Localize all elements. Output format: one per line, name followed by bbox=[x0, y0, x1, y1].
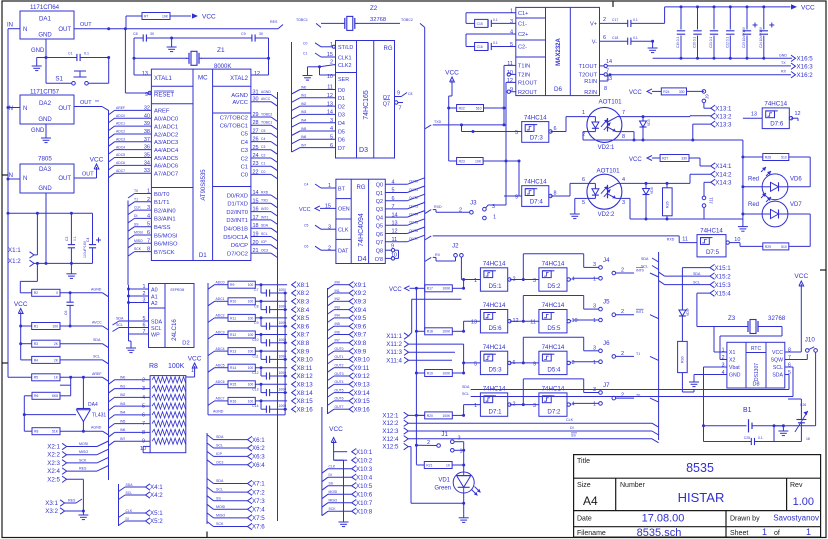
svg-text:AOT101: AOT101 bbox=[596, 168, 620, 175]
svg-text:AREF: AREF bbox=[154, 109, 170, 115]
wire RX line bbox=[610, 74, 791, 76]
wire TL431 ref bbox=[24, 414, 76, 416]
svg-text:OUT3: OUT3 bbox=[409, 204, 418, 208]
wire VCC to R22 bbox=[451, 86, 453, 96]
svg-text:0.1: 0.1 bbox=[633, 18, 638, 22]
zener VD5 bbox=[681, 268, 683, 310]
svg-text:X10:4: X10:4 bbox=[356, 474, 373, 481]
svg-text:74HC14: 74HC14 bbox=[483, 302, 506, 309]
svg-text:ADC2: ADC2 bbox=[116, 130, 125, 134]
wire xtal left vertical bbox=[133, 38, 135, 75]
wire J10 shunt mark bbox=[809, 347, 814, 350]
svg-text:CLK: CLK bbox=[134, 206, 141, 210]
svg-text:R5: R5 bbox=[34, 376, 38, 380]
svg-text:IN: IN bbox=[7, 173, 13, 179]
svg-text:5: 5 bbox=[474, 361, 477, 367]
svg-text:Size: Size bbox=[577, 482, 591, 489]
svg-text:X10:2: X10:2 bbox=[356, 457, 373, 464]
svg-text:X11:4: X11:4 bbox=[386, 357, 402, 364]
wire X11:4 stub bbox=[409, 359, 453, 361]
svg-text:C8: C8 bbox=[254, 305, 258, 309]
svg-text:X10:6: X10:6 bbox=[356, 491, 373, 498]
svg-text:X5:1: X5:1 bbox=[150, 510, 163, 517]
diode VD3 clamp bbox=[642, 117, 644, 121]
svg-text:5: 5 bbox=[142, 404, 145, 410]
svg-text:X6:4: X6:4 bbox=[252, 462, 265, 469]
nc bubble T2OUT bbox=[600, 73, 605, 75]
wire RX net to J2 bbox=[425, 257, 432, 261]
wire X15:3 to bus bbox=[665, 284, 711, 286]
border zone tick bottom bbox=[206, 532, 208, 538]
svg-text:9: 9 bbox=[533, 361, 536, 367]
svg-text:VD5: VD5 bbox=[686, 309, 690, 316]
svg-text:Savostyanov: Savostyanov bbox=[773, 514, 819, 523]
svg-text:C12: C12 bbox=[252, 371, 258, 375]
svg-text:ADC4: ADC4 bbox=[116, 145, 125, 149]
bus X4 X5 nets bbox=[118, 484, 120, 526]
svg-text:IN0: IN0 bbox=[120, 376, 125, 380]
svg-text:74HC14: 74HC14 bbox=[542, 302, 565, 309]
wire battery to ground bbox=[774, 425, 783, 427]
capacitor C21 decoupling bbox=[713, 5, 716, 8]
svg-text:6K8: 6K8 bbox=[52, 394, 58, 398]
svg-text:OUT7: OUT7 bbox=[335, 405, 344, 409]
svg-text:X11:2: X11:2 bbox=[386, 341, 402, 348]
svg-text:J1: J1 bbox=[441, 431, 448, 438]
svg-text:AREF: AREF bbox=[116, 106, 125, 110]
svg-text:B0/T0: B0/T0 bbox=[154, 192, 169, 198]
capacitor C1 0.1 reset bbox=[46, 57, 77, 59]
svg-text:VD4: VD4 bbox=[650, 187, 654, 194]
svg-text:R1OUT: R1OUT bbox=[518, 81, 538, 87]
svg-text:X8:12: X8:12 bbox=[297, 373, 314, 380]
svg-text:RX: RX bbox=[781, 70, 787, 74]
svg-text:X4:2: X4:2 bbox=[150, 492, 163, 499]
svg-text:RXD: RXD bbox=[667, 238, 675, 242]
svg-text:3: 3 bbox=[533, 278, 536, 284]
svg-text:A1/ADC1: A1/ADC1 bbox=[154, 124, 178, 130]
wire AGND tie to GND bbox=[36, 263, 38, 281]
svg-text:IN5: IN5 bbox=[120, 419, 125, 423]
svg-text:7: 7 bbox=[142, 421, 145, 427]
svg-text:ADC3: ADC3 bbox=[216, 330, 225, 334]
ground at D3 CLK2 bbox=[307, 73, 309, 76]
svg-text:X14:3: X14:3 bbox=[715, 180, 732, 187]
svg-text:1K: 1K bbox=[446, 463, 451, 467]
svg-text:ADC7: ADC7 bbox=[116, 169, 125, 173]
svg-text:C1: C1 bbox=[68, 52, 73, 56]
wire V+ to VCC rail bbox=[664, 7, 666, 24]
svg-text:30: 30 bbox=[150, 32, 154, 36]
svg-text:1000: 1000 bbox=[279, 288, 287, 292]
resistor R30 vertical bbox=[678, 341, 688, 372]
svg-text:51K: 51K bbox=[52, 430, 59, 434]
bus VCC pull-up vertical bbox=[415, 288, 417, 464]
svg-text:510: 510 bbox=[781, 245, 787, 249]
svg-text:1: 1 bbox=[474, 403, 477, 409]
svg-text:7: 7 bbox=[622, 110, 625, 116]
bus left analog nets bbox=[108, 110, 110, 480]
nc bubble T2IN bbox=[511, 73, 516, 75]
svg-text:D1: D1 bbox=[338, 96, 345, 102]
svg-text:C15: C15 bbox=[477, 22, 483, 26]
svg-text:R11: R11 bbox=[230, 316, 236, 320]
svg-text:J7: J7 bbox=[603, 382, 610, 389]
svg-text:1: 1 bbox=[474, 278, 477, 284]
wire X12:4 SS line bbox=[408, 438, 652, 440]
svg-text:X9:2: X9:2 bbox=[354, 290, 367, 297]
wire emitter rail to ground bbox=[704, 218, 743, 220]
svg-text:D0/RXD: D0/RXD bbox=[227, 193, 248, 199]
svg-text:1171СП64: 1171СП64 bbox=[30, 4, 60, 11]
svg-text:J2: J2 bbox=[452, 243, 459, 250]
svg-text:C24 10uF*16V: C24 10uF*16V bbox=[759, 26, 763, 48]
svg-text:ADC2: ADC2 bbox=[216, 314, 225, 318]
svg-text:D2/INT0: D2/INT0 bbox=[226, 210, 248, 216]
wire D5:1 to D5:2 bbox=[510, 279, 539, 281]
mcu XTAL1 section bbox=[151, 85, 193, 87]
svg-text:X2:1: X2:1 bbox=[47, 444, 60, 451]
svg-text:AREF: AREF bbox=[92, 372, 102, 376]
svg-text:C10: C10 bbox=[252, 338, 258, 342]
svg-text:7805: 7805 bbox=[38, 156, 52, 163]
svg-text:R29: R29 bbox=[765, 245, 771, 249]
shift register D3 74HC165 bbox=[336, 41, 395, 159]
svg-text:C4: C4 bbox=[261, 137, 265, 141]
svg-text:Red: Red bbox=[748, 177, 759, 183]
capacitor C23 decoupling bbox=[746, 5, 749, 8]
svg-text:VCC: VCC bbox=[389, 287, 402, 293]
wire X12:1 to R20 bbox=[408, 414, 425, 416]
bus X6 X7 nets bbox=[206, 433, 208, 524]
svg-text:OUT: OUT bbox=[58, 176, 71, 182]
svg-text:IN6: IN6 bbox=[120, 428, 125, 432]
svg-text:C0: C0 bbox=[241, 173, 248, 179]
svg-text:C3: C3 bbox=[261, 145, 265, 149]
nc bubble R2OUT bbox=[511, 91, 516, 93]
resistor R14 100 input bbox=[208, 368, 215, 373]
svg-text:MISO: MISO bbox=[79, 450, 88, 454]
svg-text:2: 2 bbox=[582, 132, 585, 138]
capacitor C11 1000 input bbox=[260, 351, 262, 359]
svg-text:SDA: SDA bbox=[116, 317, 124, 321]
svg-text:T1: T1 bbox=[636, 352, 640, 356]
svg-text:32768: 32768 bbox=[768, 315, 786, 322]
svg-text:AGND: AGND bbox=[261, 90, 271, 94]
svg-text:1: 1 bbox=[582, 110, 585, 116]
capacitor C13 1000 input bbox=[260, 384, 262, 392]
svg-text:Z2: Z2 bbox=[370, 5, 378, 12]
svg-text:DAT: DAT bbox=[338, 249, 349, 255]
svg-text:1171СП57: 1171СП57 bbox=[30, 89, 60, 96]
svg-text:ADC3: ADC3 bbox=[116, 137, 125, 141]
wire feedback loop J5 bbox=[522, 296, 524, 322]
svg-text:0.1: 0.1 bbox=[633, 36, 638, 40]
svg-text:X8:2: X8:2 bbox=[297, 290, 310, 297]
svg-text:3: 3 bbox=[492, 204, 495, 210]
svg-text:C5: C5 bbox=[304, 224, 308, 228]
wire R20 to D7:1 input bbox=[463, 405, 465, 416]
svg-text:X10:3: X10:3 bbox=[356, 466, 373, 473]
svg-text:Title: Title bbox=[577, 458, 590, 465]
ground at C18 bbox=[651, 40, 654, 43]
svg-text:X1:1: X1:1 bbox=[8, 247, 21, 254]
svg-text:Q3: Q3 bbox=[376, 207, 383, 213]
svg-text:1: 1 bbox=[806, 527, 811, 537]
svg-text:R28: R28 bbox=[765, 155, 771, 159]
border zone tick top bbox=[612, 1, 614, 7]
svg-text:SCL: SCL bbox=[151, 326, 162, 332]
wire J1 pin1 stub bbox=[454, 449, 464, 451]
svg-text:CLK1: CLK1 bbox=[338, 55, 352, 61]
svg-text:X2:4: X2:4 bbox=[47, 468, 60, 475]
svg-text:X1:2: X1:2 bbox=[8, 258, 21, 265]
svg-text:A1: A1 bbox=[151, 295, 158, 301]
resistor R29 510 bbox=[763, 243, 789, 250]
wire AGND rail of input filters bbox=[208, 414, 285, 416]
svg-text:VD1: VD1 bbox=[438, 478, 450, 484]
svg-text:T2IN: T2IN bbox=[518, 73, 530, 79]
svg-text:X15:4: X15:4 bbox=[715, 290, 732, 297]
svg-text:D5: D5 bbox=[338, 129, 345, 135]
resistor R5 1K to AREF bbox=[8, 376, 32, 378]
wire VD7 to R29 bbox=[809, 214, 811, 246]
svg-text:J6: J6 bbox=[603, 340, 610, 347]
svg-text:1: 1 bbox=[593, 318, 596, 324]
power VCC arrow top right bbox=[791, 4, 797, 9]
svg-text:D5:4: D5:4 bbox=[547, 367, 561, 374]
svg-text:SCL: SCL bbox=[641, 265, 648, 269]
svg-text:ADC0: ADC0 bbox=[116, 114, 125, 118]
svg-text:X8:6: X8:6 bbox=[297, 323, 310, 330]
svg-text:8: 8 bbox=[788, 348, 791, 354]
svg-text:X9:7: X9:7 bbox=[354, 332, 367, 339]
svg-text:VD3: VD3 bbox=[647, 119, 651, 126]
svg-text:D3/INT1: D3/INT1 bbox=[226, 218, 248, 224]
svg-text:R7: R7 bbox=[144, 14, 148, 18]
capacitor C20 decoupling bbox=[696, 5, 699, 8]
svg-text:SQW: SQW bbox=[771, 358, 783, 364]
wire VCC to X10:1 bbox=[333, 447, 335, 461]
svg-text:XTAL2: XTAL2 bbox=[230, 76, 249, 82]
svg-text:D5:1: D5:1 bbox=[489, 283, 503, 290]
svg-text:R14: R14 bbox=[230, 366, 236, 370]
svg-text:1: 1 bbox=[493, 215, 496, 221]
capacitor C18 0.1 at V- bbox=[600, 40, 628, 42]
svg-text:74HC14: 74HC14 bbox=[483, 261, 506, 268]
svg-text:D6: D6 bbox=[338, 138, 345, 144]
svg-text:X8:9: X8:9 bbox=[297, 348, 310, 355]
svg-text:1: 1 bbox=[460, 449, 463, 455]
svg-text:2: 2 bbox=[603, 17, 606, 23]
svg-text:TOBC1: TOBC1 bbox=[261, 121, 272, 125]
connector X9 1-16 with nets bbox=[349, 282, 354, 288]
svg-text:1K: 1K bbox=[54, 376, 59, 380]
svg-text:ADC5: ADC5 bbox=[216, 364, 225, 368]
svg-text:D5:6: D5:6 bbox=[489, 325, 503, 332]
wire J1 pin2 bbox=[416, 444, 436, 446]
wire input to D7:3 bbox=[461, 125, 463, 132]
capacitor C4 electrolytic input filter bbox=[92, 213, 94, 244]
wire collector to X13:2 bbox=[689, 115, 691, 118]
capacitor C6 AGND-AVCC bbox=[69, 293, 71, 302]
wire raw rail to R5 bbox=[7, 213, 9, 377]
svg-text:J3: J3 bbox=[470, 200, 477, 207]
svg-text:510: 510 bbox=[781, 155, 787, 159]
svg-text:X6:3: X6:3 bbox=[252, 454, 265, 461]
resistor R20 100K bbox=[416, 414, 424, 416]
svg-text:X8:11: X8:11 bbox=[297, 365, 313, 372]
svg-text:DS1307: DS1307 bbox=[754, 363, 760, 381]
net stub SCL top of bus bbox=[652, 266, 659, 270]
wire J3 pin3 riser bbox=[505, 161, 507, 205]
svg-text:C22 0.1: C22 0.1 bbox=[725, 37, 729, 48]
svg-text:D7:5: D7:5 bbox=[706, 249, 720, 256]
svg-text:AVCC: AVCC bbox=[232, 100, 248, 106]
svg-text:B7/SCK: B7/SCK bbox=[154, 250, 175, 256]
svg-text:12: 12 bbox=[795, 111, 801, 117]
wire TX line bbox=[607, 65, 791, 67]
svg-text:Q6: Q6 bbox=[376, 232, 383, 238]
svg-text:100K: 100K bbox=[168, 363, 185, 370]
ground at D2 bbox=[130, 345, 132, 348]
wire DS1307 GND pin bbox=[694, 374, 727, 376]
wire R18 to D5:6 input bbox=[463, 321, 465, 331]
svg-text:X6:1: X6:1 bbox=[252, 437, 265, 444]
jumper J9 bbox=[702, 90, 706, 94]
svg-text:RTC: RTC bbox=[751, 346, 762, 352]
svg-text:OC3: OC3 bbox=[261, 249, 268, 253]
resistor R24 330 bbox=[661, 88, 686, 95]
svg-text:74HC4094: 74HC4094 bbox=[358, 213, 365, 247]
svg-text:100: 100 bbox=[248, 316, 254, 320]
svg-text:B3/AIN1: B3/AIN1 bbox=[154, 217, 176, 223]
svg-text:X8:7: X8:7 bbox=[297, 332, 310, 339]
svg-text:X9:6: X9:6 bbox=[354, 323, 367, 330]
rtc D8 DS1307 bbox=[727, 342, 785, 388]
svg-text:RG: RG bbox=[357, 185, 366, 191]
capacitor C9 1000 input bbox=[260, 318, 262, 326]
svg-text:X9:11: X9:11 bbox=[354, 365, 370, 372]
svg-text:R18: R18 bbox=[427, 330, 433, 334]
title block frame bbox=[574, 455, 821, 537]
svg-text:A2: A2 bbox=[151, 301, 158, 307]
svg-text:VCC: VCC bbox=[772, 350, 783, 356]
svg-text:9: 9 bbox=[397, 91, 400, 97]
wire raw input rail vertical bbox=[7, 29, 9, 214]
svg-text:X12:2: X12:2 bbox=[382, 420, 399, 427]
ground at X3 bbox=[82, 510, 85, 513]
svg-text:VCC: VCC bbox=[299, 207, 311, 213]
svg-text:V-: V- bbox=[592, 39, 597, 45]
svg-text:TOBC2: TOBC2 bbox=[261, 112, 272, 116]
wire J11 to emitter rail bbox=[703, 207, 705, 219]
svg-text:DA4: DA4 bbox=[88, 402, 98, 408]
svg-text:GND: GND bbox=[779, 54, 787, 58]
svg-text:D4/OB1B: D4/OB1B bbox=[224, 227, 249, 233]
shift register D4 74HC4094 bbox=[336, 179, 385, 263]
svg-text:D5/OC1A: D5/OC1A bbox=[223, 235, 248, 241]
regulator DA2 1171SP57 bbox=[20, 95, 74, 124]
svg-text:Q5: Q5 bbox=[376, 224, 383, 230]
svg-text:SCL: SCL bbox=[93, 354, 100, 358]
svg-text:D6: D6 bbox=[554, 86, 562, 93]
svg-text:2: 2 bbox=[142, 377, 145, 383]
wire feedback loop J7 bbox=[522, 379, 524, 405]
svg-text:VCC: VCC bbox=[445, 70, 459, 77]
wire Z3 to X2 bbox=[760, 326, 782, 328]
svg-text:GND: GND bbox=[729, 373, 741, 379]
svg-text:V+: V+ bbox=[590, 22, 597, 28]
svg-text:SDA: SDA bbox=[693, 272, 701, 276]
wire DA1 OUT reset rail bbox=[74, 28, 278, 30]
svg-text:SCL: SCL bbox=[773, 365, 783, 371]
bus mcu right vertical bbox=[277, 92, 279, 521]
resistor R12 100 input bbox=[208, 335, 215, 340]
svg-text:B6/MISO: B6/MISO bbox=[154, 242, 178, 248]
svg-text:R9: R9 bbox=[230, 283, 234, 287]
svg-text:SS: SS bbox=[134, 222, 139, 226]
resistor R10 100 input bbox=[208, 301, 215, 306]
svg-text:AVCC: AVCC bbox=[261, 97, 271, 101]
border zone tick left upper bbox=[2, 174, 8, 176]
connector X15 bbox=[710, 264, 715, 270]
svg-text:SER: SER bbox=[338, 77, 349, 83]
svg-text:Date: Date bbox=[577, 516, 592, 523]
svg-text:X14:1: X14:1 bbox=[715, 163, 732, 170]
svg-text:RG: RG bbox=[384, 46, 393, 52]
svg-text:Rev: Rev bbox=[790, 482, 803, 489]
capacitor C15 0.1 charge pump bbox=[466, 12, 516, 14]
svg-text:TOBC1: TOBC1 bbox=[296, 18, 308, 22]
svg-text:X9:4: X9:4 bbox=[354, 307, 367, 314]
svg-text:R12: R12 bbox=[230, 333, 236, 337]
svg-text:R2IN: R2IN bbox=[584, 90, 597, 96]
wire input to D7:4 bbox=[504, 195, 522, 197]
svg-text:RX: RX bbox=[435, 253, 441, 257]
wire XTAL1 to crystal bbox=[134, 74, 151, 76]
svg-text:6: 6 bbox=[603, 35, 606, 41]
svg-text:1: 1 bbox=[593, 360, 596, 366]
svg-text:X15:2: X15:2 bbox=[715, 273, 732, 280]
svg-text:18: 18 bbox=[806, 437, 810, 441]
svg-text:X10:1: X10:1 bbox=[356, 449, 373, 456]
svg-text:R2: R2 bbox=[34, 291, 38, 295]
svg-text:C9: C9 bbox=[254, 321, 258, 325]
wire D7:1 to D7:2 bbox=[510, 404, 539, 406]
svg-text:IN4: IN4 bbox=[301, 119, 306, 123]
svg-text:IN: IN bbox=[7, 23, 13, 29]
svg-text:OUT5: OUT5 bbox=[409, 221, 418, 225]
svg-text:X12:5: X12:5 bbox=[382, 444, 399, 451]
svg-text:74HC14: 74HC14 bbox=[764, 101, 787, 108]
svg-text:4: 4 bbox=[572, 277, 575, 283]
svg-text:D7: D7 bbox=[338, 146, 345, 152]
svg-text:R4: R4 bbox=[34, 358, 38, 362]
wire J6 to net T1 bbox=[616, 355, 634, 357]
svg-text:AOT101: AOT101 bbox=[598, 99, 622, 106]
wire D5:6 to D5:5 bbox=[510, 320, 539, 322]
wire Vbat to battery rail bbox=[704, 366, 727, 368]
svg-text:D5:3: D5:3 bbox=[489, 367, 503, 374]
svg-text:B1/T1: B1/T1 bbox=[154, 200, 169, 206]
wire D5:5 output to jumper bbox=[570, 320, 572, 321]
svg-text:10: 10 bbox=[327, 74, 333, 80]
svg-text:C13: C13 bbox=[252, 388, 258, 392]
svg-text:C0: C0 bbox=[303, 41, 307, 45]
svg-text:SCL: SCL bbox=[216, 444, 223, 448]
svg-text:74HC14: 74HC14 bbox=[524, 178, 547, 185]
